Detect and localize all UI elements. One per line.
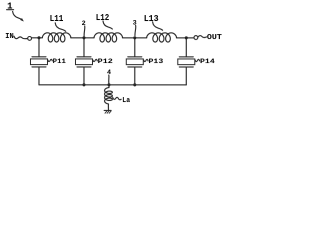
svg-text:L12: L12 bbox=[96, 12, 110, 23]
svg-text:1: 1 bbox=[7, 2, 13, 12]
svg-text:OUT: OUT bbox=[207, 34, 222, 42]
svg-text:4: 4 bbox=[107, 69, 111, 77]
svg-text:L11: L11 bbox=[50, 13, 64, 24]
svg-text:P14: P14 bbox=[200, 58, 215, 66]
svg-text:3: 3 bbox=[133, 20, 137, 28]
svg-text:P12: P12 bbox=[98, 58, 113, 66]
svg-text:IN: IN bbox=[5, 33, 13, 41]
svg-text:P11: P11 bbox=[53, 58, 66, 66]
svg-text:La: La bbox=[122, 97, 130, 105]
svg-text:L13: L13 bbox=[144, 13, 159, 24]
svg-text:P13: P13 bbox=[148, 58, 163, 66]
svg-text:2: 2 bbox=[82, 20, 86, 28]
